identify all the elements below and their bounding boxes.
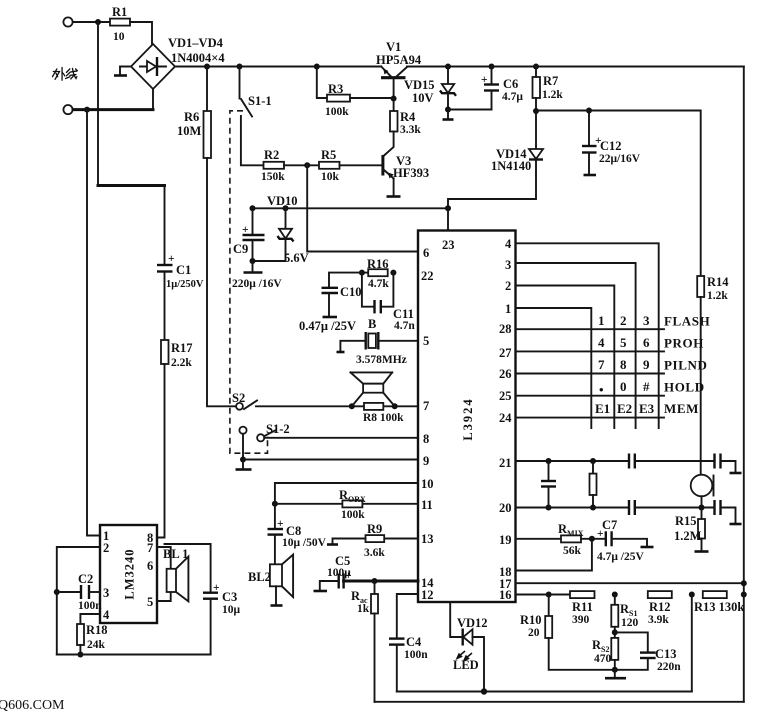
wire: pin 25 row (* 0 #) bbox=[516, 395, 665, 397]
svg-text:C10: C10 bbox=[340, 285, 362, 299]
svg-text:220μ /16V: 220μ /16V bbox=[232, 278, 282, 290]
wire: R2/R5 node down to pin 6 of L3924 bbox=[307, 165, 418, 251]
capacitor C7 4.7u/25V bbox=[597, 518, 654, 563]
node B (junction T2 rail) bbox=[84, 107, 90, 113]
wire: R2 to R5 bbox=[284, 164, 319, 166]
svg-text:5: 5 bbox=[147, 595, 153, 609]
wire: pin 4 column bbox=[516, 243, 659, 428]
wire: pin 3 column bbox=[516, 263, 636, 428]
svg-text:2.2k: 2.2k bbox=[171, 357, 192, 369]
capacitor C10 0.47u/25V bbox=[299, 285, 362, 333]
svg-text:6: 6 bbox=[147, 559, 153, 573]
wire: pin 14 net bbox=[344, 580, 418, 583]
wire: C1 to R17 bbox=[164, 272, 166, 341]
svg-text:C2: C2 bbox=[78, 572, 93, 586]
svg-text:5: 5 bbox=[620, 335, 627, 350]
switch S1-2 bbox=[239, 422, 289, 441]
node: R2/R5 junction bbox=[304, 162, 310, 168]
resistor Rs2 470 bbox=[592, 638, 618, 670]
svg-text:L3924: L3924 bbox=[461, 397, 475, 440]
svg-text:9: 9 bbox=[423, 454, 429, 468]
node: LED anode rail junction bbox=[481, 688, 487, 694]
svg-text:B: B bbox=[368, 317, 376, 331]
svg-text:R12: R12 bbox=[649, 600, 671, 614]
node: VD15 bottom / C6 bottom bbox=[445, 107, 451, 113]
svg-text:VD1–VD4: VD1–VD4 bbox=[168, 36, 224, 50]
wire: amp bottom rail bbox=[57, 654, 211, 656]
resistor Rorx 100k on pin 11 bbox=[275, 488, 418, 521]
svg-text:FLASH: FLASH bbox=[664, 314, 710, 329]
resistor R9 3.6k on pin 13 bbox=[327, 522, 418, 559]
resistor R12 3.9k bbox=[648, 591, 672, 626]
svg-text:LED: LED bbox=[453, 658, 479, 672]
capacitor (series) on pin 20 bbox=[629, 500, 715, 515]
svg-text:+: + bbox=[481, 74, 488, 86]
svg-text:5.6V: 5.6V bbox=[284, 251, 309, 265]
svg-text:1: 1 bbox=[505, 302, 511, 316]
svg-text:4.7μ: 4.7μ bbox=[502, 91, 523, 103]
wire: T2 to bridge bottom (thick) bbox=[73, 108, 153, 111]
svg-text:R16: R16 bbox=[367, 257, 389, 271]
ground stub C9 bottom bbox=[244, 261, 263, 273]
svg-text:1.2M: 1.2M bbox=[674, 529, 702, 543]
svg-text:+: + bbox=[242, 224, 249, 236]
capacitor C9 220u/16V bbox=[232, 208, 282, 290]
resistor R2 150k bbox=[261, 148, 285, 183]
wire: pin 2 to left rail bbox=[57, 547, 100, 655]
wire: LED bottom rail bbox=[397, 691, 692, 693]
svg-text:VD12: VD12 bbox=[457, 616, 488, 630]
capacitor C6 4.7u bbox=[481, 67, 523, 110]
keypad function labels bbox=[664, 314, 710, 417]
bridge rectifier VD1-VD4 1N4004x4 bbox=[131, 36, 225, 89]
zener diode VD10 5.6V bbox=[253, 194, 309, 265]
svg-text:1μ/250V: 1μ/250V bbox=[166, 279, 204, 290]
svg-text:3.9k: 3.9k bbox=[648, 614, 669, 626]
wire: T1 to R1 bbox=[73, 21, 110, 23]
svg-text:3.578MHz: 3.578MHz bbox=[356, 354, 407, 366]
svg-text:C12: C12 bbox=[600, 139, 622, 153]
svg-text:LM3240: LM3240 bbox=[123, 548, 137, 599]
svg-text:S1-2: S1-2 bbox=[266, 422, 290, 436]
node: pin20 taps bbox=[546, 505, 552, 511]
svg-text:1N4004×4: 1N4004×4 bbox=[171, 51, 225, 65]
watermark Q606.COM bbox=[0, 698, 65, 713]
svg-text:R11: R11 bbox=[572, 600, 593, 614]
svg-text:27: 27 bbox=[499, 346, 512, 360]
capacitor C1 1u/250V bbox=[157, 253, 204, 290]
svg-text:7: 7 bbox=[147, 541, 153, 555]
wire: S1-2 to pin 8 bbox=[264, 437, 418, 439]
svg-text:19: 19 bbox=[499, 533, 512, 547]
svg-text:+: + bbox=[277, 518, 284, 530]
node: S1-1 tap bbox=[237, 64, 243, 70]
svg-text:BL 1: BL 1 bbox=[163, 547, 188, 561]
svg-text:R6: R6 bbox=[184, 110, 199, 124]
svg-text:C8: C8 bbox=[286, 524, 301, 538]
capacitor C2 100n bbox=[57, 572, 102, 612]
svg-text:3: 3 bbox=[505, 258, 511, 272]
svg-text:100k: 100k bbox=[325, 106, 349, 118]
svg-text:C1: C1 bbox=[176, 263, 191, 277]
svg-text:4: 4 bbox=[103, 608, 110, 622]
svg-text:Q606.COM: Q606.COM bbox=[0, 698, 65, 713]
resistor R11 390 bbox=[570, 591, 595, 626]
svg-text:R14: R14 bbox=[707, 275, 729, 289]
speaker BL2 bbox=[248, 555, 293, 606]
capacitor pin20 right + stub bbox=[715, 500, 742, 524]
svg-text:10: 10 bbox=[421, 477, 434, 491]
svg-text:R18: R18 bbox=[86, 623, 108, 637]
node: R10 tap bbox=[546, 592, 552, 598]
node A (junction T1/R1) bbox=[95, 19, 101, 25]
node: mic bottom / R15 bbox=[699, 505, 705, 511]
wire: pin 1 column bbox=[516, 308, 592, 428]
svg-text:5: 5 bbox=[423, 334, 429, 348]
svg-text:20: 20 bbox=[499, 501, 512, 515]
wire: R7 bottom rail to x=700 drop bbox=[536, 111, 701, 277]
wire: pin 7 net bbox=[256, 405, 418, 407]
svg-text:11: 11 bbox=[421, 498, 433, 512]
resistor R3 100k bbox=[317, 67, 394, 119]
microphone BM bbox=[691, 475, 714, 508]
svg-text:C9: C9 bbox=[233, 242, 248, 256]
capacitor pin21 right + stub bbox=[715, 454, 742, 474]
svg-text:R4: R4 bbox=[400, 110, 416, 124]
svg-text:26: 26 bbox=[499, 367, 512, 381]
wire: R1 to bridge top bbox=[130, 22, 152, 44]
svg-text:R13 130k: R13 130k bbox=[694, 600, 744, 614]
transistor V3 HF393 bbox=[383, 132, 429, 197]
node: R12/R13 junction bbox=[689, 592, 695, 598]
speaker BL1 bbox=[157, 547, 188, 601]
wire: top rail V1 collector to right edge bbox=[407, 66, 744, 68]
keypad key labels bbox=[595, 313, 655, 416]
bridge left vertex stub bbox=[114, 67, 131, 76]
node: C12 tap bbox=[586, 108, 592, 114]
node: Rs2 bottom bbox=[612, 667, 618, 673]
svg-text:10μ: 10μ bbox=[222, 604, 241, 616]
resistor R16 4.7k bbox=[367, 257, 389, 290]
svg-text:C3: C3 bbox=[222, 590, 237, 604]
wire: R6 down to S2 bbox=[207, 158, 236, 406]
svg-text:#: # bbox=[643, 379, 650, 394]
svg-text:24k: 24k bbox=[87, 639, 106, 651]
wire: pin 24 row (E1 E2 E3) bbox=[516, 417, 665, 419]
node: R3 tap bbox=[314, 64, 320, 70]
switch S1-1 bbox=[240, 67, 272, 166]
svg-text:R2: R2 bbox=[264, 148, 279, 162]
wire: pin 27 row (4 5 6) bbox=[516, 350, 665, 352]
ground below Rs2 bbox=[605, 670, 626, 678]
resistor R6 10M bbox=[177, 67, 211, 159]
svg-text:+: + bbox=[168, 253, 175, 265]
svg-text:12: 12 bbox=[421, 588, 434, 602]
svg-text:10μ /50V: 10μ /50V bbox=[282, 537, 327, 549]
svg-text:R15: R15 bbox=[675, 514, 697, 528]
node: pin23 / VD14 junction bbox=[445, 205, 451, 211]
wire: bottom rail bbox=[375, 701, 744, 703]
node: R tap pin21 bbox=[590, 458, 596, 464]
wire: pin 26 row (7 8 9) bbox=[516, 373, 665, 375]
wire: pin 28 row (1 2 3 FLASH) bbox=[516, 328, 665, 330]
wire: VD15 bottom to C6 bottom bbox=[448, 109, 492, 111]
wire: bridge + output rail to V1 emitter bbox=[175, 66, 381, 68]
svg-text:C4: C4 bbox=[406, 635, 422, 649]
svg-text:PROH: PROH bbox=[664, 336, 704, 351]
svg-text:C6: C6 bbox=[503, 77, 518, 91]
node: R16 right bbox=[390, 270, 396, 276]
label 外线 (external line) hand-drawn glyphs bbox=[53, 68, 78, 81]
wire: pin 18 up to C7 node bbox=[516, 539, 592, 571]
wire: R17 down to LM3240 pin 8 bbox=[157, 364, 165, 538]
IC U2 LM3240 bbox=[100, 525, 157, 623]
svg-text:10k: 10k bbox=[321, 171, 340, 183]
receiver (earpiece) on pin 7 bbox=[351, 372, 395, 406]
capacitor C12 22u/16V bbox=[582, 111, 641, 176]
crystal B 3.578MHz bbox=[337, 317, 419, 366]
svg-text:2: 2 bbox=[505, 279, 511, 293]
node: C9 top bbox=[250, 205, 256, 211]
node: R6 tap bbox=[204, 64, 210, 70]
node: C9/VD10 bottom bbox=[250, 258, 256, 264]
svg-text:S1-1: S1-1 bbox=[248, 94, 272, 108]
wire: pin 21 net left of cap bbox=[516, 460, 630, 462]
svg-text:1: 1 bbox=[598, 313, 605, 328]
switch S2 bbox=[232, 391, 257, 410]
svg-text:E2: E2 bbox=[617, 401, 632, 416]
svg-text:4: 4 bbox=[598, 335, 605, 350]
svg-text:390: 390 bbox=[572, 614, 590, 626]
svg-text:25: 25 bbox=[499, 389, 512, 403]
svg-text:6: 6 bbox=[643, 335, 650, 350]
node: Rs1 tap bbox=[612, 592, 618, 598]
svg-text:4.7μ /25V: 4.7μ /25V bbox=[597, 551, 644, 563]
resistor R14 1.2k (on mic supply rail) bbox=[697, 275, 729, 302]
resistor R8 100k bbox=[363, 403, 404, 424]
svg-text:3.6k: 3.6k bbox=[364, 547, 385, 559]
svg-text:10M: 10M bbox=[177, 124, 202, 138]
svg-text:6: 6 bbox=[423, 246, 429, 260]
svg-text:22μ/16V: 22μ/16V bbox=[599, 153, 641, 165]
terminal T2 (bottom external line) bbox=[63, 105, 72, 114]
wire: pin 12 to C4 bbox=[397, 594, 418, 639]
svg-text:1N4140: 1N4140 bbox=[491, 159, 531, 173]
resistor R13 130k bbox=[694, 591, 744, 614]
terminal T1 (top external line) bbox=[63, 17, 72, 26]
resistor Rmix 56k on pin 19 bbox=[516, 522, 606, 557]
svg-text:HP5A94: HP5A94 bbox=[376, 53, 422, 67]
wire: R16 left to C10 bbox=[329, 273, 362, 288]
node: pin 9 / ground junction bbox=[240, 457, 246, 463]
svg-text:100n: 100n bbox=[404, 649, 428, 661]
svg-text:3.3k: 3.3k bbox=[400, 124, 421, 136]
node: R7 tap bbox=[533, 64, 539, 70]
svg-text:7: 7 bbox=[598, 357, 605, 372]
node: R8 left bbox=[349, 403, 355, 409]
wire: 5.6V rail C9 to pin23 node bbox=[253, 207, 449, 209]
svg-text:R8 100k: R8 100k bbox=[363, 412, 404, 424]
svg-text:150k: 150k bbox=[261, 171, 285, 183]
wire: pin 20 net bbox=[516, 507, 630, 509]
svg-text:1.2k: 1.2k bbox=[542, 89, 563, 101]
svg-text:0.47μ /25V: 0.47μ /25V bbox=[299, 319, 356, 333]
node: C2 left bbox=[54, 589, 60, 595]
wire: bridge bottom vertex down bbox=[152, 89, 154, 110]
svg-text:0: 0 bbox=[620, 379, 627, 394]
wire: node A down, jog right, down to C1 (to LM3240 pin 8 chain) bbox=[98, 22, 165, 265]
dashed gang link S1-1 to S1-2 bbox=[230, 111, 268, 453]
svg-text:R7: R7 bbox=[543, 74, 558, 88]
resistor Rac 1k bbox=[351, 581, 378, 702]
svg-text:100μ: 100μ bbox=[327, 567, 351, 579]
svg-text:E3: E3 bbox=[639, 401, 655, 416]
svg-text:+: + bbox=[213, 582, 220, 594]
ground stub below S1-2 bbox=[236, 460, 252, 470]
resistor R10 20 bbox=[520, 595, 615, 670]
node: Rac tap bbox=[372, 578, 378, 584]
svg-text:100n: 100n bbox=[78, 600, 102, 612]
capacitor C8 10u/50V bbox=[268, 504, 327, 565]
wire: pin 2 column bbox=[516, 286, 615, 429]
resistor R7 1.2k bbox=[533, 67, 564, 112]
wire: R14 down to mic top bbox=[700, 297, 702, 475]
svg-text:VD10: VD10 bbox=[267, 194, 298, 208]
wire: S1-2 left pole down to ground / pin 9 bbox=[242, 434, 244, 460]
ground stub below VD15 bbox=[443, 110, 454, 120]
svg-text:13: 13 bbox=[421, 532, 434, 546]
svg-text:4.7n: 4.7n bbox=[394, 320, 415, 332]
svg-text:4: 4 bbox=[505, 237, 512, 251]
svg-text:•: • bbox=[599, 382, 604, 397]
capacitor C11 4.7n (parallel with R16) bbox=[362, 273, 415, 332]
resistor Rs1 120 bbox=[611, 595, 638, 638]
resistor R4 3.3k bbox=[390, 99, 421, 137]
svg-text:R10: R10 bbox=[520, 613, 542, 627]
resistor R18 24k bbox=[77, 614, 108, 655]
svg-text:3: 3 bbox=[103, 586, 109, 600]
node: C-gnd tap pin21 bbox=[546, 458, 552, 464]
svg-text:MEM: MEM bbox=[664, 401, 699, 416]
svg-text:8: 8 bbox=[620, 357, 627, 372]
svg-text:2: 2 bbox=[620, 313, 627, 328]
svg-text:V1: V1 bbox=[386, 40, 401, 54]
resistor R15 1.2M bbox=[674, 508, 709, 552]
wire: pin 10 net bbox=[275, 483, 418, 504]
svg-text:10V: 10V bbox=[412, 91, 434, 105]
wire: node down into L3924 pin 23 bbox=[447, 208, 449, 230]
transistor V1 HP5A94 (PNP series pass) bbox=[376, 40, 422, 99]
svg-text:56k: 56k bbox=[563, 545, 582, 557]
svg-text:28: 28 bbox=[499, 322, 512, 336]
diode VD14 1N4140 bbox=[448, 111, 543, 208]
wire: R5 to V3 base bbox=[340, 164, 383, 166]
svg-text:220n: 220n bbox=[657, 661, 681, 673]
svg-text:C11: C11 bbox=[393, 307, 414, 321]
svg-text:3: 3 bbox=[643, 313, 650, 328]
node: R13 right rail bbox=[741, 592, 747, 598]
capacitor C4 100n bbox=[389, 635, 428, 692]
wire: pin 9 net bbox=[243, 459, 418, 461]
wire: top rail down right edge bbox=[743, 67, 745, 702]
svg-text:100k: 100k bbox=[341, 509, 365, 521]
svg-text:470: 470 bbox=[594, 653, 612, 665]
svg-text:C5: C5 bbox=[335, 554, 350, 568]
wire: R12 node down to LED rail bbox=[691, 595, 693, 692]
capacitor to pin20 (x=548.5) bbox=[541, 461, 556, 508]
wire: pin 17 net to right rail bbox=[516, 582, 744, 584]
svg-text:R1: R1 bbox=[112, 5, 127, 19]
node: VD15 tap bbox=[445, 64, 451, 70]
svg-text:BL2: BL2 bbox=[248, 570, 271, 584]
svg-text:E1: E1 bbox=[595, 401, 610, 416]
svg-text:120: 120 bbox=[621, 617, 639, 629]
svg-text:9: 9 bbox=[643, 357, 650, 372]
svg-text:R17: R17 bbox=[171, 341, 193, 355]
capacitor C13 220n bbox=[615, 632, 681, 673]
svg-text:4.7k: 4.7k bbox=[368, 278, 389, 290]
wire: pin 16 net bbox=[516, 594, 571, 596]
node: pin18/C7 junction bbox=[589, 536, 595, 542]
svg-text:C7: C7 bbox=[602, 518, 617, 532]
svg-text:R3: R3 bbox=[328, 82, 343, 96]
capacitor (series) on pin 21 bbox=[629, 454, 715, 469]
svg-text:C13: C13 bbox=[655, 647, 677, 661]
node: C6 tap bbox=[489, 64, 495, 70]
wire: pin 8 chain link to C3 bbox=[165, 544, 211, 593]
svg-text:1k: 1k bbox=[357, 603, 370, 615]
resistor R5 10k bbox=[319, 148, 340, 183]
svg-text:2: 2 bbox=[103, 541, 109, 555]
node: V1 base / R3 / R4 bbox=[391, 96, 397, 102]
capacitor C5 100u bbox=[314, 554, 352, 591]
svg-text:8: 8 bbox=[423, 432, 429, 446]
svg-text:VD15: VD15 bbox=[404, 78, 435, 92]
capacitor C3 10u bbox=[203, 582, 241, 655]
svg-text:21: 21 bbox=[499, 456, 512, 470]
resistor R17 2.2k bbox=[161, 340, 193, 369]
node: pin10/11/C8 junction bbox=[272, 501, 278, 507]
LED VD12 bbox=[450, 602, 487, 692]
zener diode VD15 10V bbox=[404, 67, 456, 110]
svg-text:20: 20 bbox=[528, 627, 540, 639]
node: Rs1/Rs2/C13 junction bbox=[612, 629, 618, 635]
node: R8 right bbox=[392, 403, 398, 409]
svg-text:S2: S2 bbox=[232, 391, 245, 405]
svg-text:HOLD: HOLD bbox=[664, 380, 705, 395]
resistor R1 10 bbox=[110, 5, 130, 43]
svg-text:HF393: HF393 bbox=[393, 166, 429, 180]
svg-text:23: 23 bbox=[442, 238, 455, 252]
node: R7 bottom bbox=[533, 108, 539, 114]
node: R18 bottom bbox=[77, 652, 83, 658]
node: VD10 top bbox=[283, 205, 289, 211]
svg-text:16: 16 bbox=[499, 588, 512, 602]
resistor between pins 21/20 (x=593) bbox=[590, 461, 597, 508]
svg-text:22: 22 bbox=[421, 269, 434, 283]
svg-text:R9: R9 bbox=[367, 522, 382, 536]
svg-text:1.2k: 1.2k bbox=[707, 290, 728, 302]
svg-text:24: 24 bbox=[499, 411, 512, 425]
wire: node B down to LM3240 pin1 bbox=[87, 110, 100, 536]
svg-text:R5: R5 bbox=[321, 148, 336, 162]
node: R16 left bbox=[359, 270, 365, 276]
svg-text:10: 10 bbox=[113, 31, 125, 43]
wire: pin 22 net bbox=[362, 272, 368, 274]
svg-text:7: 7 bbox=[423, 399, 429, 413]
